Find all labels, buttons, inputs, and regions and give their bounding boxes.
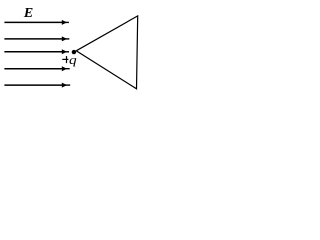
field arrow 5 (4, 83, 70, 88)
field arrow 1 (4, 20, 69, 25)
field arrow 2 (4, 36, 69, 41)
background (0, 0, 141, 94)
field arrow 4 (4, 66, 69, 71)
svg-text:E: E (23, 6, 33, 21)
svg-text:q: q (69, 53, 77, 67)
field arrow 3 (4, 49, 69, 54)
charge label +q (62, 53, 76, 67)
point charge dot (72, 50, 76, 54)
cone (triangle) (76, 16, 138, 89)
